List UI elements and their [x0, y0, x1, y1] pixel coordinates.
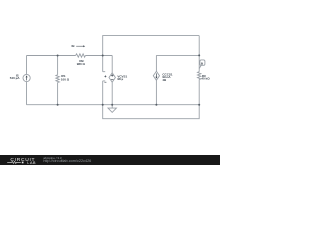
- CCCS arrow: [155, 73, 157, 77]
- wire bottom rail: [27, 104, 200, 106]
- wire right vertical below RC and lower rail: [103, 79, 200, 118]
- node dot B: [102, 55, 104, 57]
- CCCS diamond: [153, 71, 159, 80]
- wire sense-port upper lead: [103, 56, 106, 72]
- wire right vertical from top: [198, 36, 200, 72]
- resistor RC zigzag (vertical right): [198, 72, 201, 80]
- resistor RS vertical leads: [57, 56, 59, 105]
- node dot B-left: [57, 55, 59, 57]
- svg-text:980 Ω: 980 Ω: [77, 62, 86, 66]
- wire CCCS bottom lead: [155, 80, 157, 104]
- svg-text:100 Ω: 100 Ω: [61, 77, 70, 81]
- junction dots: [57, 54, 201, 105]
- svg-text:40 kΩ: 40 kΩ: [201, 77, 210, 81]
- wire VCVS branch: [111, 56, 113, 105]
- svg-text:98 µ: 98 µ: [117, 77, 123, 81]
- wire top rail right of RB to VCVS corner: [85, 55, 112, 57]
- watermark logo zigzag: [7, 161, 21, 163]
- wire CCCS top link: [156, 55, 199, 71]
- wire left loop: left vertical (broken by current source): [27, 36, 201, 119]
- sense port plus: [104, 75, 106, 77]
- svg-text:LAB: LAB: [27, 161, 36, 165]
- wire top rail left: [27, 55, 76, 57]
- svg-text:540 µA: 540 µA: [10, 76, 21, 80]
- node dot gnd 2: [102, 104, 104, 106]
- resistor RB zigzag (series, horizontal): [76, 54, 86, 57]
- current source IS arrow: [26, 77, 28, 80]
- svg-text:htlp://circuitlab.com/c22c426: htlp://circuitlab.com/c22c426: [43, 159, 91, 163]
- watermark bar: [0, 155, 220, 165]
- node dot gnd 3: [111, 104, 113, 106]
- svg-text:IB: IB: [72, 44, 76, 48]
- VCVS minus: [111, 79, 113, 81]
- wire sense-port lower lead: [103, 81, 106, 105]
- sense port minus: [104, 81, 106, 83]
- node dot gnd 5: [198, 104, 200, 106]
- node flag box: [200, 60, 205, 65]
- resistor RS zigzag: [56, 75, 59, 83]
- wire upper link from node B up and across to right: [103, 36, 200, 56]
- node dot C top: [198, 54, 200, 56]
- ground: [111, 105, 113, 108]
- current source IS circle: [23, 74, 30, 81]
- VCVS U1 diamond: [109, 73, 115, 82]
- VCVS plus: [111, 74, 113, 76]
- node flag leader: [199, 65, 201, 68]
- node dot gnd 4: [155, 104, 157, 106]
- node dot gnd 1: [57, 104, 59, 106]
